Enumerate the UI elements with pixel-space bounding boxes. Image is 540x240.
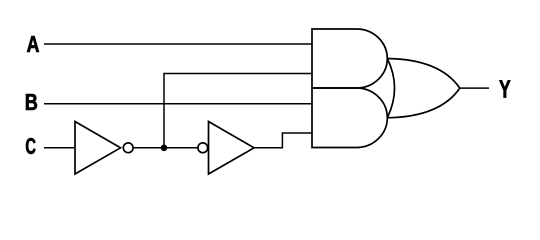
AND gate AND1 xyxy=(312,29,387,88)
wire C to NOT1 xyxy=(44,147,75,149)
wire NOT2 output step to AND2 xyxy=(254,133,312,148)
wire NOT1 bubble to NOT2 bubble xyxy=(133,147,197,149)
inverter NOT2 input bubble xyxy=(198,143,208,153)
wire junction up to AND1 second input xyxy=(164,74,312,148)
junction dot xyxy=(161,145,168,152)
label A xyxy=(27,36,39,52)
inverter NOT1 bubble xyxy=(123,143,133,153)
inverter NOT2 triangle xyxy=(209,122,255,175)
wire OR output to Y xyxy=(460,87,489,89)
OR gate bottom edge xyxy=(387,88,460,118)
label C xyxy=(26,138,36,154)
AND gate AND2 xyxy=(312,88,387,148)
inverter NOT1 triangle xyxy=(75,122,121,175)
label Y xyxy=(499,80,510,97)
OR gate back arc xyxy=(387,59,394,118)
wire A to AND1 xyxy=(44,43,312,45)
OR gate top edge xyxy=(387,59,460,89)
wire B to AND2 xyxy=(44,103,312,105)
label B xyxy=(26,94,37,110)
